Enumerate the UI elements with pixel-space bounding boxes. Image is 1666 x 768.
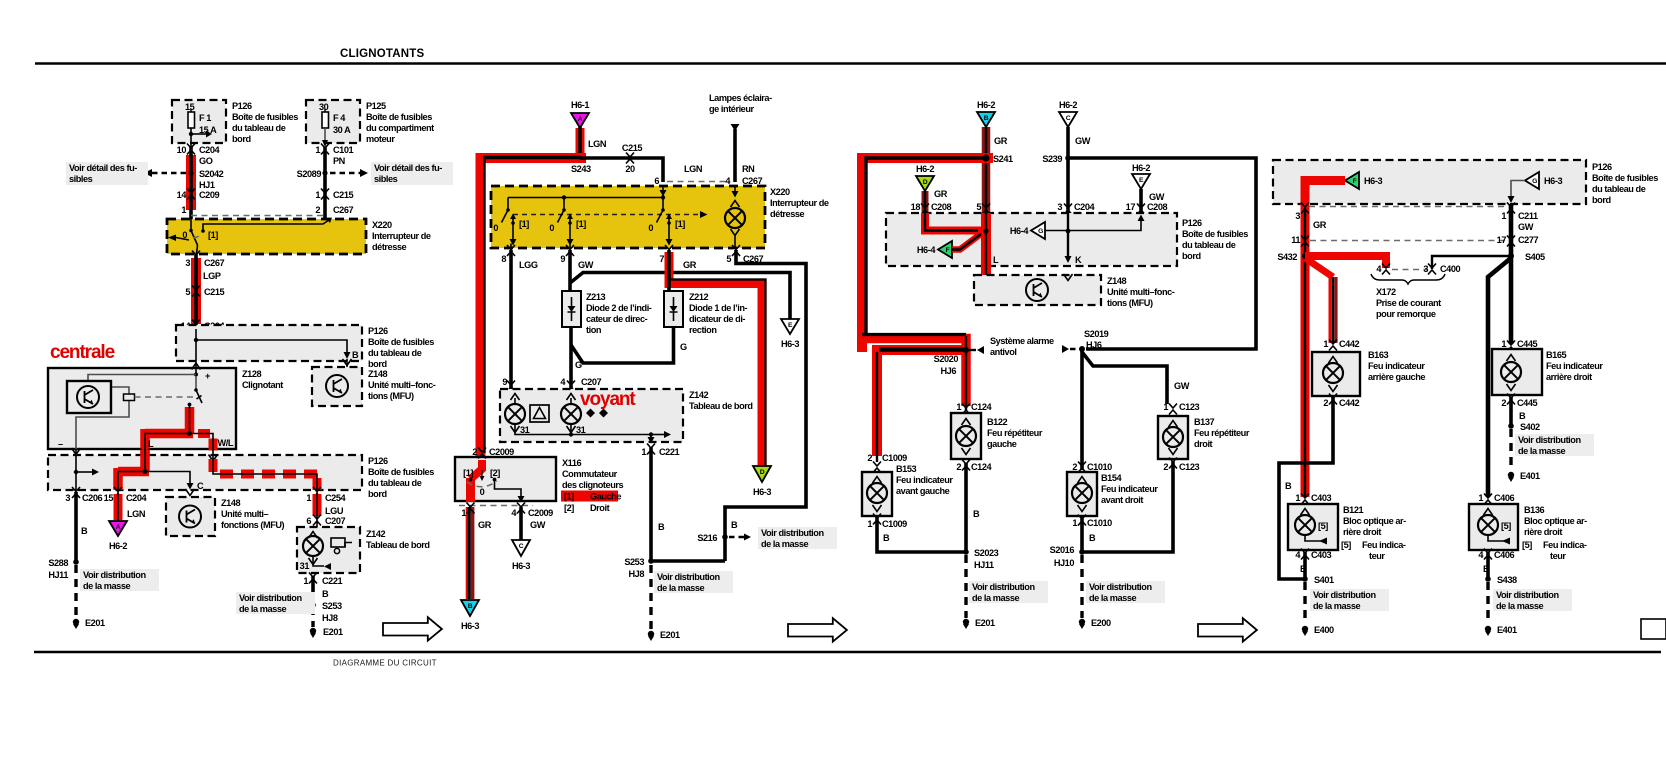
connector H6-3 G (white) <box>1525 172 1562 189</box>
splice S2089 <box>297 169 368 179</box>
svg-text:GW: GW <box>578 260 594 270</box>
svg-text:E201: E201 <box>85 618 105 628</box>
svg-text:B154: B154 <box>1101 473 1123 483</box>
X220-2 hazard lamp <box>725 186 745 248</box>
wire B from B122 <box>966 463 980 552</box>
fuse box P126 (top left) <box>172 100 226 143</box>
wire GW right side <box>1509 204 1514 256</box>
svg-text:Z142: Z142 <box>366 529 385 539</box>
svg-text:C101: C101 <box>333 145 354 155</box>
label B153 <box>896 464 953 496</box>
svg-text:1: 1 <box>1501 339 1506 349</box>
note voir distribution masse (B136) <box>1493 589 1572 611</box>
connector H6-3 C (white) <box>512 540 530 571</box>
connector C204 pin 3 / C208 pin 17 <box>1057 202 1167 215</box>
svg-text:HJ8: HJ8 <box>322 613 338 623</box>
wire LGN horizontal <box>580 158 703 182</box>
svg-text:teur: teur <box>1550 551 1566 561</box>
splice S253 (section 1) <box>310 601 342 623</box>
svg-text:teur: teur <box>1369 551 1385 561</box>
Z142-2 indicator lamp left <box>505 394 525 425</box>
X220-2 internals: feed wire <box>508 186 667 200</box>
label B121 <box>1341 505 1406 561</box>
svg-text:[5]: [5] <box>1501 521 1511 531</box>
wire red into H6-3 D <box>753 466 771 497</box>
svg-text:du tableau de: du tableau de <box>368 348 422 358</box>
svg-text:B: B <box>1519 411 1526 421</box>
Z142 trailer icon <box>331 538 352 554</box>
svg-text:X172: X172 <box>1376 287 1396 297</box>
svg-text:P126: P126 <box>368 456 388 466</box>
svg-text:6: 6 <box>654 176 659 186</box>
svg-text:tions (MFU): tions (MFU) <box>1107 298 1153 308</box>
svg-text:B: B <box>973 509 980 519</box>
svg-text:C1009: C1009 <box>882 453 907 463</box>
P126-3 red jumper D to B wire <box>925 213 982 231</box>
svg-text:bord: bord <box>232 134 251 144</box>
svg-text:B153: B153 <box>896 464 917 474</box>
wire into Z142 <box>316 519 318 531</box>
wire fuse F4 output <box>322 128 328 147</box>
wire E branch (to H6-3 E) <box>570 273 790 320</box>
svg-text:E400: E400 <box>1314 625 1334 635</box>
svg-text:G: G <box>680 342 687 352</box>
X116 internals <box>463 460 524 503</box>
label X220 section 2 <box>770 187 829 219</box>
wire GR from H6-2 B (maroon) <box>986 127 1008 213</box>
svg-text:17: 17 <box>1497 235 1507 245</box>
svg-text:0: 0 <box>648 223 653 233</box>
svg-text:C277: C277 <box>1518 235 1539 245</box>
svg-text:GR: GR <box>683 260 697 270</box>
rear indicator lamp B163 <box>1312 352 1360 396</box>
connector C254 pin 1 <box>306 487 346 503</box>
connector C208 pin 18 <box>911 202 952 215</box>
svg-text:1: 1 <box>1478 493 1483 503</box>
svg-text:Prise de courant: Prise de courant <box>1376 298 1441 308</box>
dashed ground wire <box>311 607 314 627</box>
fuse box P125 (top) <box>306 100 360 143</box>
svg-text:D: D <box>923 179 928 186</box>
svg-text:K: K <box>1075 255 1082 265</box>
svg-text:31: 31 <box>300 561 310 571</box>
label Z148 section 3 <box>1107 276 1175 308</box>
connector H6-2 E (white) <box>1132 163 1150 189</box>
svg-text:[2]: [2] <box>490 468 500 478</box>
svg-text:S216: S216 <box>697 533 717 543</box>
svg-text:X220: X220 <box>372 220 392 230</box>
svg-text:centrale: centrale <box>50 342 115 363</box>
wire GR highlighted to H6-3 D <box>669 252 766 468</box>
svg-text:C124: C124 <box>971 462 993 472</box>
svg-text:Tableau de bord: Tableau de bord <box>689 401 753 411</box>
svg-text:H6-3: H6-3 <box>1544 176 1562 186</box>
label P126 lower <box>368 456 434 499</box>
svg-text:bord: bord <box>368 489 387 499</box>
svg-text:9: 9 <box>502 377 507 387</box>
svg-text:rière droit: rière droit <box>1343 527 1381 537</box>
svg-text:Voir distribution: Voir distribution <box>761 528 824 538</box>
svg-text:Diode 2 de l’indi-: Diode 2 de l’indi- <box>586 303 652 313</box>
svg-text:S241: S241 <box>993 154 1013 164</box>
connector H6-3 B (cyan) <box>461 600 479 631</box>
svg-text:Droit: Droit <box>590 503 610 513</box>
svg-text:GR: GR <box>1313 220 1327 230</box>
svg-text:31: 31 <box>576 425 586 435</box>
wire GR to H6-3 B (red/black/maroon) <box>467 507 491 599</box>
svg-text:Feu répétiteur: Feu répétiteur <box>1194 428 1250 438</box>
svg-text:S2020: S2020 <box>934 354 959 364</box>
svg-text:P125: P125 <box>366 101 386 111</box>
svg-text:Voir distribution: Voir distribution <box>1518 435 1581 445</box>
svg-text:1: 1 <box>1501 211 1506 221</box>
svg-text:C442: C442 <box>1339 339 1360 349</box>
note voir detail des fusibles (left) <box>66 162 148 185</box>
svg-text:cateur de direc-: cateur de direc- <box>586 314 648 324</box>
svg-text:de la masse: de la masse <box>657 583 704 593</box>
wire B ground (Z142) <box>313 576 329 605</box>
svg-text:de la masse: de la masse <box>1089 593 1136 603</box>
svg-text:GR: GR <box>478 520 492 530</box>
svg-text:3: 3 <box>1057 202 1062 212</box>
Z142 lamp <box>303 532 323 557</box>
svg-text:S438: S438 <box>1497 575 1517 585</box>
note voir distribution masse (S216) <box>758 527 837 549</box>
dashed connector line C2009/C267 top <box>667 181 730 183</box>
label B137 <box>1194 417 1250 449</box>
connector C267 pin 3 <box>185 251 224 269</box>
pin 5 C267 <box>726 245 763 264</box>
wire GW S239 to right rail down to S2019 <box>1068 158 1256 349</box>
svg-text:D: D <box>760 469 765 476</box>
wire B from B163 <box>1279 397 1333 579</box>
note systeme alarme antivol <box>990 336 1054 357</box>
svg-text:A: A <box>116 524 121 531</box>
red branch to trailer socket X172 <box>1305 256 1386 270</box>
svg-text:[2]: [2] <box>564 503 574 513</box>
svg-text:B: B <box>322 589 329 599</box>
rear indicator lamp B165 <box>1492 349 1542 395</box>
svg-text:Feu indicateur: Feu indicateur <box>1546 361 1603 371</box>
label P126 section 3 <box>1182 218 1248 261</box>
label X220 <box>372 220 431 252</box>
diode Z212 <box>664 291 683 327</box>
svg-text:1: 1 <box>956 402 961 412</box>
svg-text:G: G <box>575 360 582 370</box>
wire B from B137 <box>1082 461 1173 552</box>
svg-text:B: B <box>468 603 473 610</box>
svg-text:GR: GR <box>994 136 1008 146</box>
svg-text:1: 1 <box>1072 518 1077 528</box>
Z142 pin 31 <box>300 556 331 571</box>
label X172 <box>1376 287 1441 319</box>
red feed down-left to S2020 area <box>858 335 966 463</box>
note lampes eclairage interieur <box>709 93 772 114</box>
svg-text:HJ6: HJ6 <box>1086 340 1102 350</box>
svg-text:détresse: détresse <box>770 209 805 219</box>
label Z148 lower <box>221 498 285 530</box>
connector C124 pin 2 <box>956 460 992 473</box>
splice S253 (section 2) <box>624 557 725 579</box>
Z142-2 arrows decoration <box>586 409 608 418</box>
rear lamp unit B121 <box>1288 504 1338 550</box>
svg-text:sibles: sibles <box>374 174 398 184</box>
svg-text:gauche: gauche <box>987 439 1017 449</box>
svg-text:C208: C208 <box>931 202 952 212</box>
svg-text:Z148: Z148 <box>368 369 387 379</box>
ground E201 (section 2) <box>648 630 680 641</box>
svg-text:H6-2: H6-2 <box>1059 100 1077 110</box>
svg-text:LGU: LGU <box>325 506 344 516</box>
svg-text:2: 2 <box>867 453 872 463</box>
svg-text:du tableau de: du tableau de <box>232 123 286 133</box>
svg-text:HJ11: HJ11 <box>974 560 994 570</box>
svg-text:Boîte de fusibles: Boîte de fusibles <box>368 337 434 347</box>
svg-text:B: B <box>1089 533 1096 543</box>
connector C403 pin 1 <box>1295 493 1331 505</box>
trailer socket pins 4 / 3 C400 <box>1376 264 1460 275</box>
svg-text:de la masse: de la masse <box>972 593 1019 603</box>
svg-text:1: 1 <box>306 493 311 503</box>
wire LGU (highlighted) <box>317 492 344 519</box>
svg-text:30 A: 30 A <box>333 125 351 135</box>
svg-text:bord: bord <box>1182 251 1201 261</box>
svg-text:X116: X116 <box>562 458 581 468</box>
svg-text:bord: bord <box>1592 195 1611 205</box>
svg-text:Voir détail des fu-: Voir détail des fu- <box>69 163 137 173</box>
svg-text:Voir détail des fu-: Voir détail des fu- <box>374 163 442 173</box>
svg-text:B137: B137 <box>1194 417 1215 427</box>
svg-text:E200: E200 <box>1091 618 1111 628</box>
svg-text:L: L <box>993 255 999 265</box>
svg-text:HJ1: HJ1 <box>199 180 215 190</box>
connector H6-2 A (magenta) <box>109 521 127 551</box>
svg-text:[1]: [1] <box>675 219 685 229</box>
svg-text:18: 18 <box>911 202 921 212</box>
svg-text:7: 7 <box>659 254 664 264</box>
wire B from B165 <box>1511 397 1526 426</box>
MFU Z148 (section 3) <box>974 274 1101 305</box>
P126 lower: stub arrow on minus wire <box>74 469 99 476</box>
svg-text:[1]: [1] <box>463 468 473 478</box>
svg-text:H6-2: H6-2 <box>109 541 127 551</box>
svg-text:de la masse: de la masse <box>761 539 808 549</box>
svg-text:1: 1 <box>1295 493 1300 503</box>
X220 internal switch <box>168 218 332 255</box>
page arrow 2 <box>788 618 847 641</box>
svg-text:Interrupteur de: Interrupteur de <box>770 198 829 208</box>
svg-text:Boîte de fusibles: Boîte de fusibles <box>368 467 434 477</box>
svg-text:0: 0 <box>480 487 485 497</box>
svg-text:2: 2 <box>472 447 477 457</box>
svg-text:P126: P126 <box>1592 162 1612 172</box>
svg-text:LGN: LGN <box>684 164 703 174</box>
wire highlighted S243 to left drop <box>481 158 587 460</box>
svg-text:Système alarme: Système alarme <box>990 336 1054 346</box>
connector C215 pin 5 <box>185 286 224 298</box>
svg-text:2: 2 <box>1501 398 1506 408</box>
connector C1010 pin 2 <box>1072 462 1112 473</box>
svg-text:L: L <box>148 439 154 449</box>
svg-text:des clignoteurs: des clignoteurs <box>562 480 623 490</box>
connector C1009 pin 2 <box>867 453 907 473</box>
svg-text:G: G <box>1038 228 1043 235</box>
svg-text:C445: C445 <box>1517 339 1538 349</box>
Z128 oscillator box <box>67 381 111 413</box>
svg-text:1: 1 <box>867 519 872 529</box>
wire GR black into Z212 <box>667 250 671 291</box>
svg-text:2: 2 <box>956 462 961 472</box>
svg-text:B163: B163 <box>1368 350 1389 360</box>
svg-text:1: 1 <box>641 447 646 457</box>
svg-text:15: 15 <box>104 493 114 503</box>
Z128 top pin <box>192 361 201 374</box>
svg-text:C: C <box>1066 115 1071 122</box>
svg-text:C406: C406 <box>1494 550 1515 560</box>
dashed connector line C277 <box>1310 240 1506 242</box>
wire GO (highlighted) <box>191 147 213 219</box>
svg-text:RN: RN <box>742 164 755 174</box>
connector C215 pin 20 <box>622 143 643 174</box>
svg-text:GW: GW <box>1149 192 1165 202</box>
diode Z213 <box>562 291 581 327</box>
pin 9 into Z142-2 <box>502 377 515 392</box>
svg-text:P126: P126 <box>1182 218 1202 228</box>
hazard switch X220 (section 2) <box>491 186 765 248</box>
svg-text:C207: C207 <box>325 516 346 526</box>
svg-text:avant droit: avant droit <box>1101 495 1143 505</box>
svg-text:[5]: [5] <box>1522 540 1532 550</box>
svg-text:S405: S405 <box>1525 252 1545 262</box>
svg-text:Feu indica-: Feu indica- <box>1362 540 1406 550</box>
dashed ground to E200 <box>1080 555 1083 618</box>
label X116 <box>562 458 623 490</box>
hazard switch X220 (section 1) <box>167 219 366 254</box>
svg-text:rection: rection <box>689 325 717 335</box>
svg-text:C215: C215 <box>204 287 225 297</box>
svg-text:Unité multi–fonc-: Unité multi–fonc- <box>1107 287 1175 297</box>
svg-text:GW: GW <box>1518 222 1534 232</box>
svg-text:S2019: S2019 <box>1084 329 1109 339</box>
svg-text:HJ10: HJ10 <box>1054 558 1075 568</box>
svg-text:détresse: détresse <box>372 242 407 252</box>
svg-text:C254: C254 <box>325 493 347 503</box>
pin 7 GR <box>659 245 696 270</box>
wire L through P126 (highlighted) <box>118 449 150 491</box>
connector C2009 pins 1 and 4 <box>461 503 553 519</box>
connector C442 pin 2 <box>1323 394 1359 409</box>
svg-text:S288: S288 <box>48 558 68 568</box>
Z128 relay coil <box>124 394 195 401</box>
svg-text:H6-3: H6-3 <box>1364 176 1382 186</box>
svg-text:Z148: Z148 <box>1107 276 1126 286</box>
bottom rule <box>34 651 1661 654</box>
svg-text:antivol: antivol <box>990 347 1016 357</box>
svg-text:C2009: C2009 <box>528 508 553 518</box>
svg-text:C215: C215 <box>333 190 354 200</box>
svg-text:S239: S239 <box>1042 154 1062 164</box>
connector C277 pin 17 <box>1497 235 1539 247</box>
svg-text:HJ11: HJ11 <box>48 570 68 580</box>
connector C204 pin 15 <box>104 487 148 503</box>
svg-text:H6-1: H6-1 <box>571 100 589 110</box>
svg-text:Feu indicateur: Feu indicateur <box>1101 484 1158 494</box>
svg-text:H6-4: H6-4 <box>1010 226 1029 236</box>
svg-text:DIAGRAMME DU CIRCUIT: DIAGRAMME DU CIRCUIT <box>333 659 437 668</box>
svg-text:C: C <box>197 481 204 491</box>
wire RN from interior lamps <box>731 124 756 182</box>
splice S402 <box>1508 422 1540 432</box>
svg-text:de la masse: de la masse <box>239 604 286 614</box>
svg-text:C206: C206 <box>82 493 103 503</box>
svg-text:Unité multi–: Unité multi– <box>221 509 269 519</box>
wire B from B154 <box>1082 516 1096 552</box>
svg-text:Diode 1 de l’in-: Diode 1 de l’in- <box>689 303 748 313</box>
svg-text:S243: S243 <box>571 164 591 174</box>
splice S2020 <box>934 346 984 376</box>
svg-text:B165: B165 <box>1546 350 1567 360</box>
ground E200 <box>1079 618 1111 629</box>
connector H6-2 C (white) <box>1059 100 1077 127</box>
Z128 switch <box>188 376 202 406</box>
svg-text:HJ8: HJ8 <box>628 569 644 579</box>
wire C to Z148 lower <box>186 489 195 496</box>
svg-text:Feu indica-: Feu indica- <box>1543 540 1587 550</box>
svg-text:C267: C267 <box>742 176 763 186</box>
svg-text:5: 5 <box>976 202 981 212</box>
rear lamp unit B136 <box>1469 504 1518 550</box>
connector C207 pin 6 <box>306 515 345 527</box>
svg-text:C123: C123 <box>1179 462 1200 472</box>
svg-text:C403: C403 <box>1311 550 1332 560</box>
svg-text:Interrupteur de: Interrupteur de <box>372 231 431 241</box>
svg-text:Clignotant: Clignotant <box>242 380 283 390</box>
svg-text:bord: bord <box>368 359 387 369</box>
svg-text:C2009: C2009 <box>489 447 514 457</box>
svg-text:LGN: LGN <box>588 139 607 149</box>
svg-text:B: B <box>731 520 738 530</box>
svg-text:[5]: [5] <box>1341 540 1351 550</box>
splice S288 <box>48 558 78 580</box>
wire GR from H6-2 D (maroon) <box>925 189 948 213</box>
svg-text:Feu répétiteur: Feu répétiteur <box>987 428 1043 438</box>
svg-text:Voir distribution: Voir distribution <box>239 593 302 603</box>
wire LGN to H6-2 A (highlighted) <box>118 492 146 521</box>
svg-text:LGN: LGN <box>127 509 146 519</box>
note voir distribution masse (B122) <box>969 581 1048 603</box>
dashed ground wire to E201 <box>74 565 77 618</box>
svg-text:8: 8 <box>501 254 506 264</box>
indicator lamp B154 <box>1067 472 1097 516</box>
connector C209 pin 14 <box>177 189 220 201</box>
svg-text:Boîte de fusibles: Boîte de fusibles <box>232 112 298 122</box>
svg-text:E201: E201 <box>660 630 680 640</box>
svg-text:Voir distribution: Voir distribution <box>972 582 1035 592</box>
svg-text:Z128: Z128 <box>242 369 261 379</box>
X220-2 switch 2 <box>549 198 586 249</box>
svg-text:3: 3 <box>1423 264 1428 274</box>
svg-text:X220: X220 <box>770 187 790 197</box>
connector C221 pin 1 <box>641 444 679 458</box>
connector C204 pin 10 <box>177 144 221 156</box>
svg-text:GW: GW <box>1174 381 1190 391</box>
label Z128 <box>242 369 283 390</box>
dashed ground to E400 <box>1303 582 1306 624</box>
connector C2009 pin 2 <box>472 447 514 459</box>
svg-text:H6-2: H6-2 <box>977 100 995 110</box>
X220-2 ganged dashed line <box>513 211 708 218</box>
wire B ground left <box>76 492 88 562</box>
